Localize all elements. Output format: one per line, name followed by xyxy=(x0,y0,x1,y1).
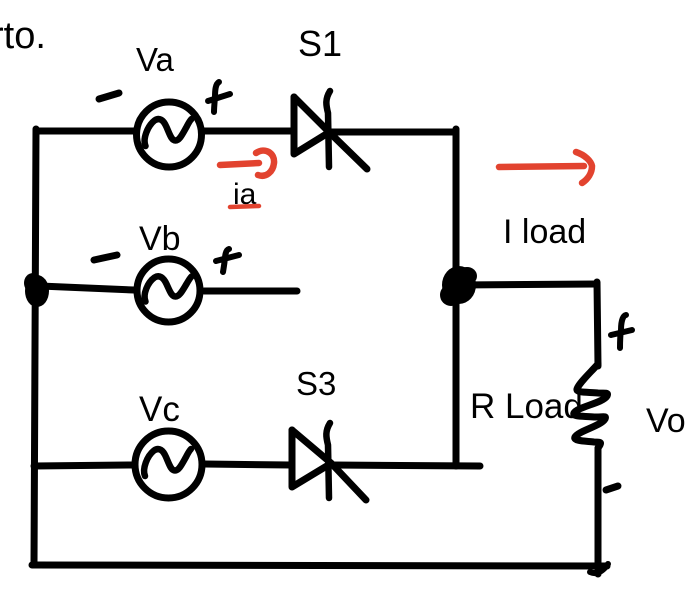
right rail vertical (top corner to S3 row) xyxy=(453,129,460,466)
red current arrow ia xyxy=(220,151,274,176)
bottom-right end tick xyxy=(590,564,608,573)
wire Vc right xyxy=(204,464,291,465)
node junction left xyxy=(24,273,49,307)
wire load top horizontal xyxy=(458,284,597,285)
plus sign (Va right) xyxy=(208,82,230,112)
svg-text:rto.: rto. xyxy=(0,15,46,57)
node junction right xyxy=(440,266,477,306)
wire Va to S1 xyxy=(204,128,293,135)
ac source Vb xyxy=(137,259,200,322)
wire top-left horizontal xyxy=(36,128,134,135)
minus sign (Vo bottom) xyxy=(606,486,618,490)
right load rail upper xyxy=(597,282,598,366)
svg-text:R Load: R Load xyxy=(470,387,583,426)
wire bottom horizontal xyxy=(32,565,607,566)
svg-text:S3: S3 xyxy=(296,365,336,402)
red current arrow I load xyxy=(499,152,592,183)
wire S3 to right rail xyxy=(332,465,480,466)
red underline under ia xyxy=(230,206,259,207)
minus sign (Va left) xyxy=(99,93,119,99)
ac source Vc xyxy=(135,431,202,498)
right load rail lower xyxy=(595,448,602,574)
thyristor S3 xyxy=(292,423,366,500)
svg-text:Vc: Vc xyxy=(139,390,180,429)
wire S1 to right corner xyxy=(331,129,456,136)
wire Vc left xyxy=(34,465,132,466)
svg-text:Va: Va xyxy=(136,41,175,78)
plus sign (Vb right) xyxy=(216,249,239,272)
thyristor S1 xyxy=(294,91,367,169)
minus sign (Vb left) xyxy=(94,255,117,260)
ac source Va xyxy=(137,102,202,167)
wire Vb right (unconnected stub) xyxy=(204,288,297,295)
svg-text:Vb: Vb xyxy=(139,220,181,258)
left rail vertical xyxy=(34,129,36,565)
resistor R Load xyxy=(574,364,608,448)
wire Vb left xyxy=(40,286,134,290)
svg-text:I load: I load xyxy=(503,213,586,251)
svg-text:Vo: Vo xyxy=(646,402,686,440)
svg-text:S1: S1 xyxy=(298,23,342,64)
plus sign (Vo top) xyxy=(611,315,632,348)
